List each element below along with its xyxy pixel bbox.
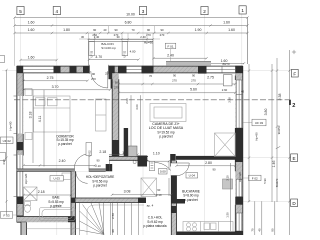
svg-text:90: 90 bbox=[271, 228, 275, 232]
dining table living bbox=[150, 104, 186, 122]
svg-text:270: 270 bbox=[172, 79, 177, 83]
svg-text:5: 5 bbox=[19, 9, 22, 14]
svg-text:UF 02: UF 02 bbox=[3, 139, 12, 143]
svg-text:90: 90 bbox=[111, 229, 115, 233]
svg-text:2.75: 2.75 bbox=[207, 75, 214, 79]
section cut dashed line 2-2 bbox=[14, 99, 290, 101]
svg-text:2.10: 2.10 bbox=[156, 193, 162, 197]
svg-text:1.46: 1.46 bbox=[272, 161, 276, 168]
dim 2.40 / 1.60 above top-right wall bbox=[152, 57, 208, 59]
svg-text:1: 1 bbox=[241, 8, 244, 13]
svg-text:1.60: 1.60 bbox=[223, 21, 230, 25]
left wall pier blocks bbox=[17, 142, 23, 150]
pillow 1 bbox=[36, 98, 46, 106]
kitchen door arc bbox=[177, 163, 190, 176]
right wall window 2 bbox=[236, 179, 242, 197]
svg-text:2: 2 bbox=[203, 9, 206, 14]
svg-text:70: 70 bbox=[131, 28, 135, 32]
svg-text:2.18: 2.18 bbox=[99, 150, 106, 154]
grid marker D right bbox=[291, 199, 298, 207]
svg-text:30: 30 bbox=[81, 35, 85, 39]
svg-text:2: 2 bbox=[292, 103, 295, 109]
grid axis lines vertical bbox=[21, 13, 242, 235]
top wall window 2 (Hp=90) bbox=[127, 66, 142, 72]
svg-text:UF 03: UF 03 bbox=[91, 50, 94, 57]
svg-text:UF 02: UF 02 bbox=[124, 50, 127, 57]
svg-text:p.parchet: p.parchet bbox=[159, 135, 172, 139]
svg-text:3.10: 3.10 bbox=[226, 175, 230, 181]
svg-text:2.50: 2.50 bbox=[111, 213, 115, 219]
stairs left boundary bbox=[79, 203, 81, 236]
grid marker 1 bbox=[239, 6, 246, 14]
svg-text:U 04: U 04 bbox=[189, 174, 196, 178]
svg-text:30: 30 bbox=[116, 35, 120, 39]
hall void X box bbox=[141, 178, 157, 197]
grid marker E right bbox=[291, 154, 298, 162]
interior wall V1 (dormitor | living) gray core bbox=[112, 73, 119, 156]
balcony door opening bbox=[90, 65, 109, 74]
svg-text:3.70: 3.70 bbox=[52, 85, 59, 89]
svg-text:F: F bbox=[293, 71, 296, 76]
gray overhang strip above living room wall bbox=[166, 61, 211, 65]
baie door arc bbox=[76, 172, 88, 184]
svg-text:p.piatra naturala: p.piatra naturala bbox=[143, 224, 166, 228]
top wall pier blocks bbox=[17, 66, 23, 74]
grid marker 5 bbox=[17, 7, 24, 15]
stairs winder treads fan bbox=[80, 203, 105, 235]
living door leaf rect bbox=[149, 161, 154, 170]
chimney flue block next to V1 bbox=[124, 128, 128, 156]
svg-text:270: 270 bbox=[91, 77, 96, 81]
svg-text:1.50: 1.50 bbox=[226, 212, 230, 218]
bed dormitor bbox=[34, 96, 71, 132]
dormitor interior dim row 3.70 bbox=[22, 89, 111, 91]
kitchen sink bbox=[204, 223, 210, 230]
living interior dim row bbox=[118, 83, 237, 85]
top exterior wall gray core bbox=[17, 66, 243, 73]
svg-text:2.80: 2.80 bbox=[205, 161, 212, 165]
svg-text:90: 90 bbox=[212, 168, 216, 172]
partial marker boxes left edge bbox=[0, 56, 5, 63]
svg-text:p.parchet: p.parchet bbox=[184, 198, 197, 202]
svg-text:3.70: 3.70 bbox=[95, 55, 102, 59]
svg-text:40: 40 bbox=[241, 90, 245, 94]
svg-text:0.00: 0.00 bbox=[160, 170, 166, 174]
interior wall V3 (baie east) bbox=[71, 171, 76, 235]
svg-text:Hp=90: Hp=90 bbox=[9, 121, 13, 130]
living void X box bbox=[215, 133, 236, 157]
bottom wall under kitchen bbox=[177, 232, 243, 236]
svg-text:70: 70 bbox=[149, 74, 153, 78]
stairs walking line bbox=[87, 205, 144, 235]
balcony door arc bbox=[91, 71, 108, 88]
wall stub below baie bbox=[21, 222, 27, 235]
svg-text:90: 90 bbox=[92, 72, 96, 76]
svg-text:CAMERA DE ZI+: CAMERA DE ZI+ bbox=[152, 122, 179, 126]
interior wall H1 (hall north) bbox=[109, 156, 148, 160]
left wall window 1 bbox=[17, 96, 23, 134]
H3 door opening bbox=[75, 168, 90, 171]
svg-text:3.80: 3.80 bbox=[264, 109, 268, 116]
balcony 3.70 dim bbox=[88, 58, 140, 60]
baie south exterior wall bbox=[17, 217, 76, 223]
dormitor vertical dims 3.18 / 4.11 bbox=[33, 90, 44, 167]
svg-text:90: 90 bbox=[157, 188, 161, 192]
grid marker 3 bbox=[139, 7, 146, 15]
balcony window frame label boxes bbox=[89, 42, 95, 56]
grid marker F right bbox=[291, 69, 298, 77]
door label U 02 bbox=[86, 143, 92, 156]
top wall window 3 bbox=[207, 66, 236, 72]
right wall window 1 bbox=[236, 80, 242, 128]
svg-text:80/70: 80/70 bbox=[223, 62, 230, 66]
wc baie bbox=[25, 202, 31, 206]
svg-text:5.60: 5.60 bbox=[190, 88, 197, 92]
interior wall V4 (kitchen west) bbox=[171, 161, 176, 235]
svg-text:270: 270 bbox=[191, 79, 196, 83]
hall dims 2.18 1.40 bbox=[109, 153, 139, 155]
extension lines top bbox=[15, 18, 248, 66]
svg-text:2.40: 2.40 bbox=[59, 159, 66, 163]
svg-text:90: 90 bbox=[173, 73, 177, 77]
left margin vertical dim line bbox=[6, 70, 8, 215]
svg-text:90: 90 bbox=[147, 28, 151, 32]
H2 left pier bbox=[170, 154, 175, 167]
balcony outline bbox=[89, 40, 154, 66]
svg-text:U 03: U 03 bbox=[54, 177, 61, 181]
living interior dim 5.60 bbox=[118, 92, 237, 94]
living cabinet near right wall bbox=[223, 75, 232, 86]
svg-text:90: 90 bbox=[93, 28, 97, 32]
grid marker 4 bbox=[53, 7, 60, 15]
kitchen wall stub H6 bbox=[171, 199, 185, 204]
svg-text:2.75: 2.75 bbox=[47, 76, 54, 80]
interior wall H5 (stairs north) bbox=[71, 198, 146, 203]
svg-text:90: 90 bbox=[192, 73, 196, 77]
svg-text:p.parchet: p.parchet bbox=[58, 142, 71, 146]
svg-text:10.00: 10.00 bbox=[126, 13, 135, 17]
svg-text:2.10: 2.10 bbox=[95, 164, 101, 168]
svg-text:2.40: 2.40 bbox=[140, 35, 146, 39]
top wall outer edge bbox=[17, 65, 243, 67]
V1 dark block bottom bbox=[112, 140, 119, 160]
svg-text:Hp=90: Hp=90 bbox=[255, 132, 259, 141]
right wall window 3 bbox=[236, 213, 242, 231]
svg-text:F 01: F 01 bbox=[167, 44, 173, 48]
section marker 2 right bbox=[289, 100, 291, 105]
window label UF 02 left bbox=[0, 137, 13, 144]
baie dim 2.18 bbox=[22, 194, 72, 196]
top dimension row 1 (10.00) bbox=[15, 17, 248, 19]
H1 pier block bbox=[138, 156, 148, 167]
shower baie bbox=[24, 187, 38, 201]
stairs straight treads bbox=[104, 203, 139, 235]
grid axis lines horizontal bbox=[2, 71, 292, 202]
svg-text:270: 270 bbox=[160, 33, 165, 37]
grid marker 2 bbox=[201, 7, 208, 15]
dim 1.60 above top-left wall bbox=[19, 59, 58, 61]
corridor vertical dim bbox=[168, 161, 170, 196]
svg-text:F 02: F 02 bbox=[252, 176, 258, 180]
hall level marker box bbox=[159, 169, 168, 175]
svg-text:3.18: 3.18 bbox=[29, 112, 33, 119]
svg-text:p.gresie: p.gresie bbox=[50, 204, 62, 208]
right margin vertical dim lines bbox=[248, 18, 290, 236]
window label UF 03 right bbox=[243, 122, 252, 124]
svg-text:90: 90 bbox=[96, 158, 100, 162]
door label U 04 bbox=[186, 173, 198, 178]
nightstand 2 bbox=[25, 133, 32, 140]
svg-text:90: 90 bbox=[160, 28, 164, 32]
top dimension row 3 (small dims) bbox=[15, 32, 248, 34]
svg-text:4.90: 4.90 bbox=[2, 159, 6, 165]
kitchen counter bbox=[183, 222, 233, 232]
dormitor bottom dim 2.40 bbox=[22, 164, 96, 166]
svg-text:90: 90 bbox=[115, 80, 119, 84]
svg-text:3: 3 bbox=[142, 9, 145, 14]
living door arc bbox=[155, 163, 176, 184]
terrace step line bbox=[27, 228, 80, 230]
svg-text:3.08: 3.08 bbox=[124, 190, 131, 194]
top wall window 1 bbox=[23, 66, 53, 72]
top wall inner edge bbox=[23, 72, 235, 74]
sink baie bbox=[62, 173, 71, 180]
svg-text:50/270: 50/270 bbox=[275, 178, 279, 187]
svg-text:Hp=120: Hp=120 bbox=[24, 173, 28, 184]
dormitor door arc bbox=[74, 154, 89, 169]
balcony top small dims bbox=[79, 38, 160, 40]
svg-text:1.60: 1.60 bbox=[28, 21, 35, 25]
svg-text:270: 270 bbox=[114, 86, 119, 90]
right wall pier blocks bbox=[235, 128, 243, 162]
svg-text:ap. 4: ap. 4 bbox=[147, 203, 154, 207]
svg-text:40: 40 bbox=[103, 28, 107, 32]
svg-text:25: 25 bbox=[105, 72, 109, 76]
svg-text:40: 40 bbox=[258, 228, 262, 232]
bathtub baie bbox=[40, 208, 76, 221]
svg-text:E: E bbox=[293, 156, 296, 161]
svg-text:3.58: 3.58 bbox=[228, 97, 232, 103]
left exterior wall gray core bbox=[17, 73, 23, 222]
svg-text:1.90: 1.90 bbox=[195, 28, 202, 32]
svg-text:6.80: 6.80 bbox=[125, 21, 132, 25]
svg-text:S=4.00 mp: S=4.00 mp bbox=[101, 46, 116, 50]
V4 door opening bbox=[171, 163, 177, 176]
nightstand 1 bbox=[25, 89, 32, 96]
svg-text:1.80: 1.80 bbox=[63, 28, 70, 32]
svg-text:1.60: 1.60 bbox=[28, 55, 35, 59]
H3 pier block bbox=[106, 164, 113, 171]
svg-text:5.96: 5.96 bbox=[263, 178, 267, 184]
svg-text:4.00: 4.00 bbox=[130, 50, 136, 54]
pillow 2 bbox=[48, 98, 58, 106]
bottom right vertical dim lines bbox=[255, 201, 275, 235]
top dimension row 2 (1.60 / 6.80 / 1.60) bbox=[15, 25, 248, 27]
hall dim 3.08 bbox=[111, 194, 173, 196]
svg-text:4: 4 bbox=[56, 9, 59, 14]
window frame label F 02 right margin bbox=[243, 177, 249, 179]
svg-text:70: 70 bbox=[251, 228, 255, 232]
svg-text:90/250: 90/250 bbox=[277, 125, 281, 134]
svg-text:1.60: 1.60 bbox=[228, 28, 235, 32]
kitchen vertical dims bbox=[230, 163, 232, 231]
interior wall H3 (dormitor south) bbox=[17, 169, 106, 172]
svg-text:2.60: 2.60 bbox=[222, 88, 228, 92]
svg-text:4.11: 4.11 bbox=[38, 116, 42, 123]
label box F 01 top bbox=[165, 43, 176, 48]
H5 pier block bbox=[138, 198, 146, 204]
wardrobe dormitor bbox=[96, 99, 107, 131]
fridge kitchen bbox=[223, 179, 233, 189]
svg-text:2.00: 2.00 bbox=[125, 98, 129, 104]
svg-text:U 02: U 02 bbox=[87, 150, 91, 157]
window label F 03 left bbox=[13, 214, 17, 216]
svg-text:1.60: 1.60 bbox=[28, 28, 35, 32]
svg-text:3.06: 3.06 bbox=[135, 104, 139, 110]
svg-text:p.parchet: p.parchet bbox=[93, 184, 106, 188]
right exterior wall gray core bbox=[235, 73, 243, 235]
interior wall H2 (living south) dark band bbox=[176, 156, 236, 160]
left wall window 2 bbox=[17, 155, 23, 197]
living vertical dims bbox=[131, 95, 141, 156]
stove burners bbox=[187, 223, 191, 227]
right margin ticks bbox=[248, 69, 291, 202]
svg-text:1.10: 1.10 bbox=[153, 152, 160, 156]
svg-text:Hp=90: Hp=90 bbox=[144, 40, 153, 44]
svg-text:2.38: 2.38 bbox=[278, 94, 282, 101]
svg-text:90: 90 bbox=[114, 28, 118, 32]
door label U 03 bbox=[50, 176, 63, 181]
V4 dark segments bbox=[171, 176, 176, 200]
svg-text:2.18: 2.18 bbox=[38, 190, 45, 194]
svg-text:UF 03: UF 03 bbox=[255, 121, 264, 125]
stair dims rotated bbox=[112, 203, 114, 235]
dormitor interior dim row 2.75 bbox=[22, 80, 88, 82]
svg-text:Hp=120: Hp=120 bbox=[238, 172, 242, 182]
